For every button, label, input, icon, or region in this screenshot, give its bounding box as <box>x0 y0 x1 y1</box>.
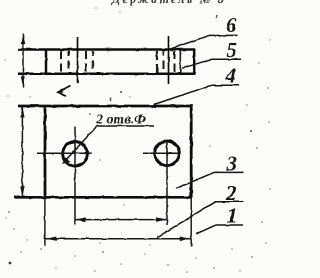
axis line right hole (side view) <box>168 36 170 84</box>
vertical axis right hole <box>166 140 168 225</box>
thickness dimension line <box>22 34 24 88</box>
spacing dim arrow right <box>156 217 167 221</box>
callout 1 underline <box>216 224 244 226</box>
side view: top outline <box>18 48 195 51</box>
callout 4 leader <box>154 85 211 104</box>
callout 1 leader <box>196 225 216 234</box>
svg-text:5: 5 <box>227 38 238 62</box>
extension line below left edge <box>44 198 46 247</box>
stray mark <box>110 98 111 102</box>
label leader arrow <box>62 157 71 164</box>
height dim arrow down <box>20 186 24 197</box>
callout 5 underline <box>211 58 241 60</box>
horizontal axis left hole <box>37 152 92 154</box>
side view: left edge <box>45 49 48 75</box>
small arrow mark below side view <box>58 86 71 97</box>
hole right <box>155 141 180 166</box>
callout 4 underline <box>211 84 239 86</box>
hole left <box>63 142 88 167</box>
height dimension line <box>21 107 23 197</box>
hidden line (dashed) left hole a <box>60 51 62 73</box>
hole spacing dimension line <box>76 219 167 221</box>
svg-text:4: 4 <box>225 63 237 87</box>
callout 6 underline <box>209 34 237 36</box>
spacing dim arrow left <box>75 217 86 221</box>
hidden line (dashed) left hole b <box>68 51 70 73</box>
svg-text:1: 1 <box>227 204 238 228</box>
front view: top edge <box>19 105 193 108</box>
front view: bottom edge <box>14 196 192 199</box>
callout 6 leader <box>169 35 209 49</box>
svg-text:6: 6 <box>226 13 237 37</box>
vertical axis left hole <box>74 127 76 225</box>
label underline <box>97 125 155 127</box>
label leader <box>65 126 98 162</box>
hidden line (dashed) left hole c <box>85 51 87 73</box>
extension line below right edge <box>190 198 192 247</box>
thickness dim arrow down <box>21 77 25 88</box>
hidden line (dashed) left hole d <box>92 51 94 73</box>
front view: left edge <box>44 105 47 198</box>
width dim arrow right <box>180 237 191 241</box>
hidden line (dashed) right hole b <box>163 51 165 73</box>
hidden line (dashed) right hole c <box>174 51 176 73</box>
horizontal axis right hole <box>143 152 180 154</box>
front view: right edge <box>190 105 193 198</box>
callout 3 underline <box>214 171 244 173</box>
callout 2 underline <box>214 201 243 203</box>
height dim arrow up <box>20 107 24 118</box>
scan speckles <box>4 7 271 273</box>
callout 2 leader <box>157 202 215 238</box>
width dim arrow left <box>46 237 57 241</box>
thin solid line right end <box>179 50 181 73</box>
thickness dim arrow up <box>21 33 25 44</box>
callout 3 leader <box>176 172 214 188</box>
svg-text:Держатель № 6: Держатель № 6 <box>111 0 226 6</box>
scan grain <box>0 0 1 1</box>
side view: right edge <box>193 49 196 75</box>
side view: bottom outline <box>18 72 195 75</box>
hidden line (dashed) right hole a <box>156 51 158 73</box>
axis line left hole (side view) <box>77 37 79 84</box>
callout 5 leader <box>182 59 211 68</box>
overall width dimension line <box>45 238 191 240</box>
